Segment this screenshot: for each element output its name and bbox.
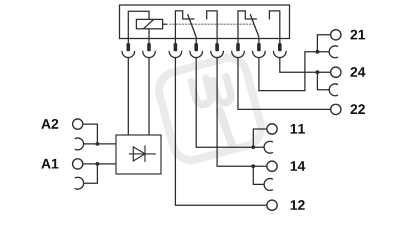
wire through box bottom 6 (237, 39, 239, 44)
terminal circle A1 (73, 159, 83, 169)
junction node 11 (251, 145, 255, 149)
plug-in contact pin 2 (147, 43, 151, 51)
wire A2 socket to module (83, 143, 116, 145)
plug-in socket 3 (169, 51, 182, 58)
relay module enclosure (120, 5, 290, 39)
junction node 14 (251, 164, 255, 168)
label A1 (41, 159, 50, 169)
junction node A2 (96, 142, 100, 146)
mechanical link dashed line (169, 23, 254, 25)
contact 1 movable lever (188, 14, 197, 37)
relay coil (136, 19, 162, 28)
contact 2 NC fixed terminal (238, 11, 257, 39)
wire net 24 (280, 58, 331, 73)
contact 2 common terminal (258, 37, 260, 39)
wire through box bottom 2 (148, 39, 150, 44)
plug-in socket 2 (143, 51, 156, 58)
input module box (116, 135, 161, 174)
plug-in socket 1 (122, 51, 135, 58)
wire coil to terminal 2 (148, 29, 150, 39)
wire terminal 1 to module (127, 58, 129, 136)
wire branch to bridge socket 14 (253, 166, 264, 184)
contact 1 NO fixed terminal (207, 11, 217, 39)
contact 1 common terminal (195, 37, 197, 39)
wire net 14 (217, 58, 267, 167)
plug-in contact pin 1 (127, 43, 131, 51)
wire branch to bridge socket A1 (83, 164, 97, 183)
plug-in contact pin 8 (278, 43, 282, 51)
junction node 24 (316, 70, 320, 74)
wire through box bottom 4 (195, 39, 197, 44)
terminal circle A2 (73, 119, 83, 129)
wire terminal 2 to module (148, 58, 150, 136)
diode cathode bar (144, 145, 146, 162)
bridge socket A1 (75, 177, 84, 189)
wire net 21 (259, 52, 330, 91)
plug-in socket 4 (190, 51, 203, 58)
bridge socket 14 (264, 179, 273, 191)
label 21 (350, 30, 357, 40)
wire branch to terminal circle 11 (253, 129, 267, 147)
diode anode line (129, 153, 156, 155)
junction node A1 (96, 162, 100, 166)
plug-in contact pin 3 (174, 43, 178, 51)
terminal circle 11 (267, 124, 277, 134)
terminal circle 12 (267, 200, 277, 210)
bridge socket 21 (329, 46, 338, 58)
plug-in socket 8 (273, 51, 286, 58)
mechanical link stub (163, 23, 168, 25)
wire branch to terminal circle 21 (317, 35, 330, 52)
coil polarity slash (143, 19, 153, 28)
terminal circle 21 (331, 30, 341, 40)
label A2 (41, 119, 50, 129)
contact 2 movable lever (250, 14, 259, 37)
bridge socket A2 (75, 138, 84, 150)
wire through box bottom 8 (279, 39, 281, 44)
contact 2 NO fixed terminal (269, 11, 279, 39)
label 12 (291, 200, 297, 210)
wire coil feed from terminal 1 (128, 11, 149, 38)
terminal circle 24 (331, 67, 341, 77)
bridge socket 24 (329, 84, 338, 96)
plug-in socket 6 (232, 51, 245, 58)
label 11 (291, 124, 297, 134)
wire branch to bridge socket 24 (317, 72, 329, 90)
label 22 (350, 104, 357, 114)
plug-in socket 5 (211, 51, 224, 58)
wire through box bottom 3 (174, 39, 176, 44)
wire through box bottom 1 (127, 39, 129, 44)
wire net 22 (238, 58, 331, 110)
contact 1 NC fixed terminal (175, 11, 194, 39)
wire net 12 (175, 58, 267, 206)
label 24 (350, 67, 357, 77)
wire A1 (83, 163, 116, 165)
terminal circle 22 (331, 104, 341, 114)
bridge socket 11 (264, 141, 273, 153)
wire A2 (83, 124, 98, 144)
plug-in contact pin 5 (215, 43, 219, 51)
wire net 11 (196, 58, 264, 148)
diode D1 (133, 147, 145, 161)
plug-in contact pin 4 (194, 43, 198, 51)
wire through box bottom 5 (216, 39, 218, 44)
label 14 (291, 161, 297, 171)
terminal circle 14 (267, 161, 277, 171)
wire through box bottom 7 (258, 39, 260, 44)
junction node 21 (316, 50, 320, 54)
plug-in contact pin 6 (236, 43, 240, 51)
plug-in contact pin 7 (257, 43, 261, 51)
plug-in socket 7 (253, 51, 266, 58)
watermark logo (155, 54, 265, 164)
